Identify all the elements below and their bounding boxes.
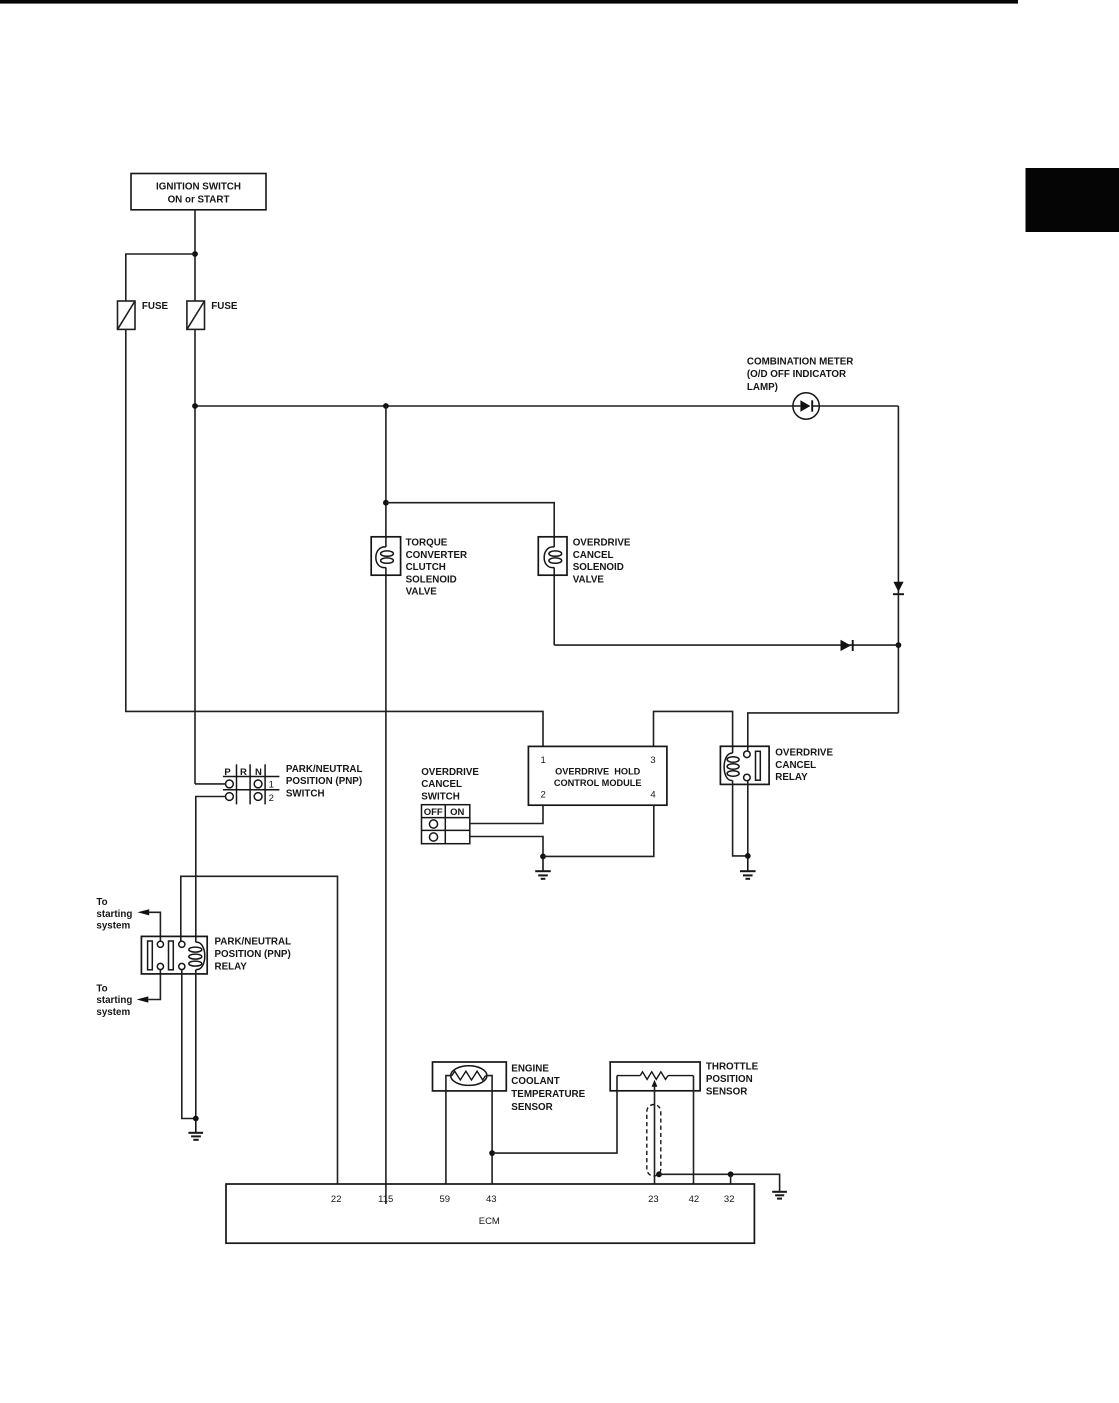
TPS label: [706, 1062, 759, 1098]
svg-text:POSITION (PNP): POSITION (PNP): [215, 949, 291, 960]
wire branch to overdrive cancel solenoid: [386, 503, 554, 645]
svg-text:SOLENOID: SOLENOID: [406, 574, 457, 585]
node ECT/TPS junction: [489, 1150, 495, 1156]
ground (relay): [740, 856, 756, 879]
wire module pin 2 to switch row 1: [470, 805, 543, 823]
wire to PNP switch row 1: [195, 783, 226, 785]
svg-text:SWITCH: SWITCH: [421, 791, 460, 802]
svg-text:PARK/NEUTRAL: PARK/NEUTRAL: [286, 764, 363, 775]
shield (dashed) around wiper wire: [647, 1105, 661, 1177]
fuse F1 (left): [118, 301, 136, 329]
svg-text:1: 1: [540, 755, 545, 766]
node solenoid branch tap: [383, 403, 389, 409]
svg-text:IGNITION SWITCH: IGNITION SWITCH: [156, 181, 241, 192]
overdrive cancel switch contacts: [429, 820, 437, 841]
svg-text:FUSE: FUSE: [142, 301, 169, 312]
node PNP relay ground junction: [193, 1116, 199, 1122]
svg-text:OFF: OFF: [424, 807, 443, 818]
overdrive cancel relay coil: [724, 753, 739, 780]
PNP relay box: [141, 936, 207, 974]
top page bar: [0, 0, 1018, 4]
svg-text:59: 59: [440, 1194, 451, 1205]
svg-text:OVERDRIVE HOLD: OVERDRIVE HOLD: [555, 767, 641, 777]
wire PNP switch row 2 down to PNP relay coil: [196, 797, 226, 943]
label to starting system (top): [96, 897, 132, 932]
svg-text:22: 22: [331, 1194, 342, 1205]
overdrive cancel switch label: [421, 767, 479, 802]
wire ECT right to ECM pin 43: [486, 1076, 493, 1184]
arrow to starting system (bottom): [137, 996, 149, 1002]
svg-text:OVERDRIVE: OVERDRIVE: [573, 538, 631, 549]
overdrive hold control module box: [528, 746, 667, 805]
PNP switch letters P R N: [224, 767, 262, 778]
svg-text:VALVE: VALVE: [406, 587, 438, 598]
svg-text:RELAY: RELAY: [775, 772, 808, 783]
svg-text:SWITCH: SWITCH: [286, 788, 325, 799]
node module ground junction: [540, 854, 546, 860]
svg-text:OVERDRIVE: OVERDRIVE: [775, 748, 833, 759]
wire left fuse down to bus: [126, 329, 543, 746]
svg-text:32: 32: [724, 1194, 735, 1205]
svg-text:(O/D OFF INDICATOR: (O/D OFF INDICATOR: [747, 369, 846, 380]
overdrive cancel relay contacts: [744, 751, 761, 781]
ECM box: [226, 1184, 754, 1243]
diode D2 (pointing right): [841, 640, 853, 651]
node diode junction: [896, 642, 902, 648]
O/D OFF indicator lamp (LED in circle): [793, 393, 819, 419]
svg-text:SOLENOID: SOLENOID: [573, 562, 624, 573]
overdrive hold control module label: [554, 767, 642, 788]
PNP relay label: [215, 937, 292, 973]
wire PNP relay contact to ground junction: [182, 970, 196, 1119]
PNP switch contacts: [226, 780, 263, 800]
svg-text:ON: ON: [450, 807, 464, 818]
ECT sensor thermistor zigzag: [452, 1071, 486, 1080]
ECT sensor ellipse: [451, 1066, 487, 1086]
wire relay coil to ground junction: [733, 781, 748, 856]
svg-text:SENSOR: SENSOR: [706, 1087, 747, 1098]
wire ignition switch to fuse junction: [194, 210, 196, 301]
svg-text:TORQUE: TORQUE: [406, 538, 448, 549]
svg-text:N: N: [255, 767, 262, 778]
svg-text:system: system: [96, 1007, 130, 1018]
torque converter clutch solenoid coil: [376, 547, 394, 568]
svg-text:To: To: [96, 983, 107, 994]
wire module pin 4 to ground junction: [543, 805, 654, 856]
wire ECT left to ECM pin 59: [446, 1076, 452, 1184]
wire ECT junction to TPS: [492, 1076, 617, 1154]
overdrive cancel solenoid valve box: [538, 537, 567, 575]
svg-text:LAMP): LAMP): [747, 382, 778, 393]
wire solenoid to diode junction: [554, 644, 898, 646]
svg-text:COOLANT: COOLANT: [511, 1076, 559, 1087]
svg-text:2: 2: [269, 793, 274, 804]
label to starting system (bottom): [96, 983, 132, 1018]
wire relay contact to arrow (bottom): [148, 970, 160, 1000]
torque converter clutch solenoid valve box: [371, 537, 400, 575]
ground (TPS shield): [772, 1192, 787, 1199]
ignition switch label: [156, 181, 241, 205]
svg-text:P: P: [224, 767, 231, 778]
PNP switch label: [286, 764, 363, 800]
overdrive cancel relay label: [775, 748, 833, 783]
svg-text:23: 23: [648, 1194, 659, 1205]
PNP switch row numbers: [269, 779, 274, 804]
svg-text:CANCEL: CANCEL: [573, 550, 614, 561]
PNP relay coil: [189, 942, 205, 969]
svg-text:CONTROL MODULE: CONTROL MODULE: [554, 778, 642, 788]
svg-text:R: R: [240, 767, 247, 778]
TPS wiper arrow to ECM pin 23: [652, 1080, 658, 1184]
combination meter label: [747, 356, 854, 393]
wire H1 relay contact to ECM pin 22: [181, 876, 338, 1184]
svg-text:4: 4: [650, 790, 655, 801]
wire TPS right leg to ECM pin 42: [693, 1076, 695, 1184]
svg-text:CLUTCH: CLUTCH: [406, 562, 446, 573]
svg-text:SENSOR: SENSOR: [511, 1102, 552, 1113]
wire indicator lamp feed: [195, 405, 898, 407]
torque converter clutch solenoid valve label: [406, 538, 468, 598]
wire A: module pin 3 to relay coil: [654, 711, 733, 753]
svg-text:CANCEL: CANCEL: [421, 779, 462, 790]
svg-text:CONVERTER: CONVERTER: [406, 550, 468, 561]
ECT sensor label: [511, 1063, 585, 1112]
svg-text:THROTTLE: THROTTLE: [706, 1062, 759, 1073]
wire arrow to relay contact (top): [149, 912, 161, 941]
ground (PNP relay): [188, 1119, 203, 1140]
overdrive cancel relay box: [720, 746, 769, 784]
svg-text:CANCEL: CANCEL: [775, 760, 816, 771]
svg-text:43: 43: [486, 1194, 497, 1205]
svg-text:VALVE: VALVE: [573, 574, 605, 585]
wire junction to left fuse: [126, 254, 195, 301]
svg-text:TEMPERATURE: TEMPERATURE: [511, 1089, 585, 1100]
diode D1 (pointing down, right leg): [893, 582, 904, 594]
node fuse split junction: [192, 251, 198, 257]
overdrive cancel solenoid coil: [544, 547, 562, 568]
wire TCC solenoid drop (to ECM pin 115): [385, 406, 387, 1204]
svg-text:115: 115: [378, 1194, 393, 1205]
svg-text:COMBINATION METER: COMBINATION METER: [747, 356, 854, 367]
svg-text:PARK/NEUTRAL: PARK/NEUTRAL: [215, 937, 292, 948]
svg-text:To: To: [96, 897, 107, 908]
fuse F2 (right): [187, 301, 205, 329]
wire switch row 2 to ground junction: [470, 837, 543, 857]
wire PNP relay coil to ground junction: [195, 970, 197, 1119]
node lamp feed tap: [192, 403, 198, 409]
overdrive cancel solenoid valve label: [573, 538, 631, 586]
wire junction to ECM pin 32: [730, 1174, 732, 1184]
wire shield to ground: [659, 1174, 780, 1191]
throttle position sensor box: [610, 1062, 700, 1091]
svg-text:3: 3: [650, 755, 655, 766]
PNP switch grid: [223, 764, 280, 804]
overdrive cancel switch OFF/ON labels: [424, 807, 465, 818]
wire relay contact to ground junction: [747, 781, 749, 856]
svg-text:42: 42: [689, 1194, 700, 1205]
node shield ground junction: [656, 1171, 662, 1177]
svg-text:1: 1: [269, 779, 274, 790]
page tab black box: [1026, 168, 1119, 232]
engine coolant temperature sensor box: [433, 1062, 507, 1091]
node relay ground junction: [745, 853, 751, 859]
wire right fuse down to PNP switch row 1: [194, 329, 196, 784]
node overdrive solenoid branch: [383, 500, 389, 506]
svg-text:system: system: [96, 921, 130, 932]
svg-text:RELAY: RELAY: [215, 961, 248, 972]
svg-text:POSITION (PNP): POSITION (PNP): [286, 776, 362, 787]
TPS resistor track: [617, 1072, 694, 1080]
PNP relay contact plates: [148, 941, 174, 970]
svg-text:POSITION: POSITION: [706, 1074, 753, 1085]
svg-text:ENGINE: ENGINE: [511, 1063, 549, 1074]
ignition switch box: [131, 174, 266, 210]
svg-text:ON or START: ON or START: [168, 195, 230, 206]
PNP relay contacts: [157, 941, 185, 969]
ground (module): [535, 856, 551, 878]
arrow to starting system (top): [138, 909, 150, 915]
wire B: relay contact feed from lamp circuit: [748, 713, 899, 751]
svg-text:OVERDRIVE: OVERDRIVE: [421, 767, 479, 778]
overdrive cancel switch table: [422, 805, 470, 844]
svg-text:FUSE: FUSE: [211, 301, 238, 312]
svg-text:starting: starting: [96, 995, 132, 1006]
svg-text:starting: starting: [96, 909, 132, 920]
svg-text:ECM: ECM: [479, 1216, 500, 1227]
node pin 32 junction: [728, 1171, 734, 1177]
wire right drop from lamp: [897, 406, 899, 713]
svg-text:2: 2: [540, 790, 545, 801]
